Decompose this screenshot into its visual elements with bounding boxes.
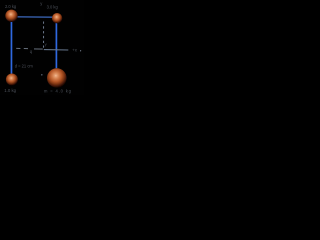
svg-text:d = 21 cm: d = 21 cm	[15, 64, 34, 69]
svg-text:+x: +x	[72, 47, 78, 52]
svg-text:1.0 kg: 1.0 kg	[4, 88, 16, 93]
svg-text:y: y	[45, 42, 47, 47]
svg-text:3.0 kg: 3.0 kg	[47, 5, 59, 10]
svg-text:m = 4.0 kg: m = 4.0 kg	[44, 89, 72, 94]
svg-text:2.0 kg: 2.0 kg	[5, 4, 17, 9]
